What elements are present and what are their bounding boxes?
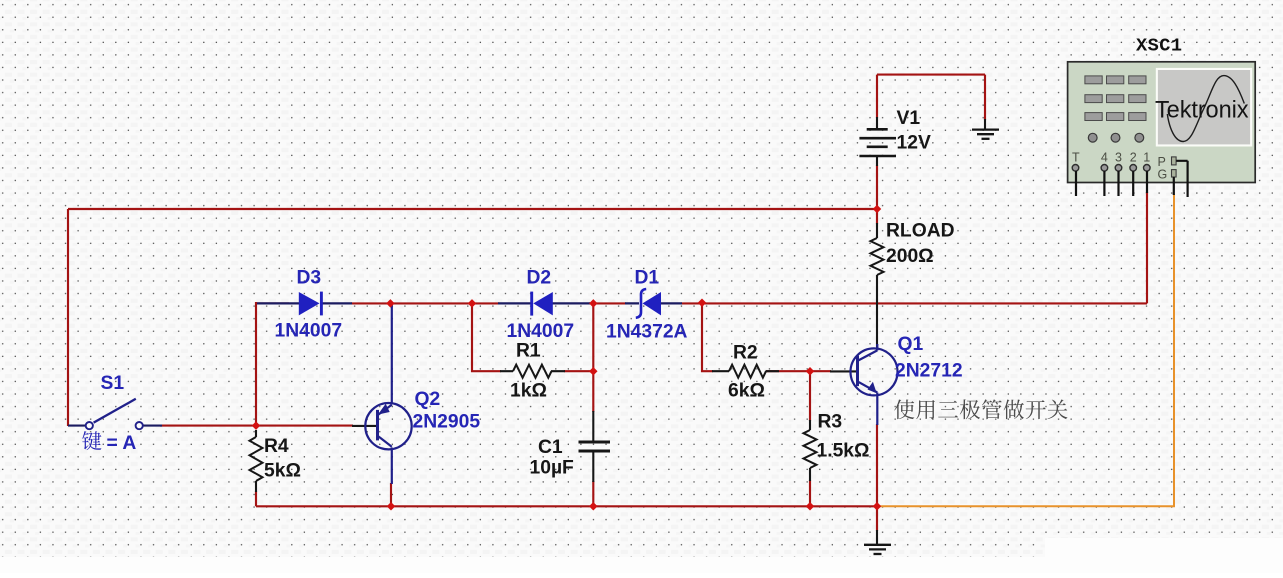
svg-text:1N4372A: 1N4372A — [606, 321, 688, 342]
svg-text:1N4007: 1N4007 — [275, 320, 343, 341]
svg-text:1kΩ: 1kΩ — [510, 380, 547, 401]
svg-text:V1: V1 — [897, 108, 921, 129]
svg-text:T: T — [1072, 150, 1080, 164]
svg-text:R2: R2 — [733, 343, 758, 364]
svg-text:1.5kΩ: 1.5kΩ — [817, 440, 870, 461]
svg-text:5kΩ: 5kΩ — [264, 460, 301, 481]
svg-text:Q1: Q1 — [898, 334, 924, 355]
svg-text:1: 1 — [1143, 150, 1150, 164]
svg-text:R3: R3 — [818, 412, 843, 433]
svg-text:12V: 12V — [897, 133, 931, 154]
svg-text:10µF: 10µF — [530, 457, 575, 478]
svg-text:D3: D3 — [297, 268, 322, 289]
svg-text:XSC1: XSC1 — [1136, 35, 1182, 56]
svg-text:RLOAD: RLOAD — [886, 221, 955, 242]
svg-text:Q2: Q2 — [415, 389, 441, 410]
svg-text:4: 4 — [1101, 150, 1108, 164]
svg-text:200Ω: 200Ω — [886, 246, 934, 267]
svg-text:S1: S1 — [101, 373, 125, 394]
svg-text:D2: D2 — [527, 268, 552, 289]
svg-text:2N2712: 2N2712 — [895, 360, 963, 381]
svg-text:2: 2 — [1130, 150, 1137, 164]
svg-text:D1: D1 — [635, 268, 660, 289]
svg-text:G: G — [1158, 167, 1168, 181]
svg-text:6kΩ: 6kΩ — [728, 381, 765, 402]
svg-text:= A: = A — [107, 433, 137, 454]
svg-text:R1: R1 — [516, 341, 541, 362]
svg-text:Tektronix: Tektronix — [1155, 97, 1249, 123]
svg-text:C1: C1 — [538, 437, 563, 458]
svg-text:R4: R4 — [264, 436, 289, 457]
svg-text:2N2905: 2N2905 — [413, 411, 481, 432]
svg-text:1N4007: 1N4007 — [507, 321, 575, 342]
svg-text:3: 3 — [1115, 150, 1122, 164]
